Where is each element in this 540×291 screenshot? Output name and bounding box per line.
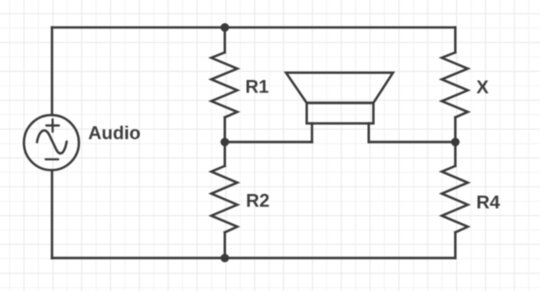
speaker LS1 right leg: [368, 123, 370, 142]
junction dot bridge right: [451, 138, 460, 147]
voltage source V1 circle: [24, 115, 79, 170]
label R1: [247, 80, 269, 93]
wire right branch top lead: [454, 27, 456, 52]
wire middle branch mid lead: [224, 117, 226, 165]
speaker LS1 left leg: [311, 123, 313, 142]
wire bridge right segment: [369, 141, 456, 143]
source minus sign: [46, 158, 59, 160]
wire middle branch top lead: [224, 27, 226, 52]
label Audio: [89, 126, 140, 140]
resistor R4: [442, 166, 468, 233]
speaker LS1 body rectangle: [307, 103, 374, 124]
resistor X: [442, 52, 468, 117]
wire left rail lower segment: [51, 171, 53, 258]
source sine wave: [37, 130, 67, 153]
wire middle branch bottom lead: [224, 232, 226, 258]
wire right branch bottom lead: [454, 232, 456, 258]
source plus sign: [46, 119, 59, 131]
wire right branch mid lead: [454, 117, 456, 165]
resistor R1: [211, 52, 237, 117]
label X: [477, 81, 489, 94]
junction dot bridge left: [221, 138, 230, 147]
speaker LS1 trapezoid: [286, 73, 393, 103]
label R2: [247, 194, 269, 207]
wire bridge left segment: [225, 141, 312, 143]
junction dot bottom middle: [221, 254, 230, 263]
junction dot top middle: [221, 23, 230, 32]
wire bottom rail: [52, 257, 455, 259]
label R4: [478, 196, 500, 209]
resistor R2: [211, 166, 237, 233]
wire top rail: [52, 26, 455, 28]
wire left rail upper segment: [51, 27, 53, 114]
